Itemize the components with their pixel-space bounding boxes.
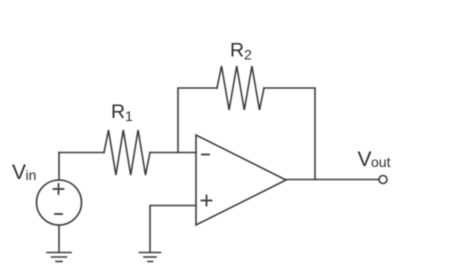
wire R2 to right corner and down to output — [264, 88, 315, 180]
label Vin — [12, 161, 36, 184]
svg-text:V: V — [358, 148, 372, 171]
op-amp minus sign — [202, 154, 209, 156]
wire source top to node A — [58, 153, 60, 181]
voltage source plus sign — [54, 184, 64, 194]
svg-text:in: in — [26, 167, 37, 183]
resistor R2 — [217, 66, 264, 110]
resistor R1 — [104, 130, 150, 175]
svg-text:V: V — [12, 161, 26, 184]
voltage source V1 — [37, 180, 82, 225]
op-amp U1 — [196, 135, 286, 225]
wire R1 to inverting input — [150, 152, 196, 154]
svg-text:2: 2 — [244, 47, 252, 63]
voltage source minus sign — [55, 213, 62, 215]
label R1 — [111, 101, 133, 124]
ground under noninverting input — [140, 253, 161, 262]
label Vout — [358, 148, 391, 171]
ground under voltage source — [47, 253, 71, 262]
wire junction B up to R2 — [178, 88, 217, 153]
svg-text:out: out — [371, 154, 391, 170]
wire node A to R1 — [59, 152, 104, 154]
op-amp plus sign — [202, 196, 212, 206]
output terminal circle — [379, 176, 387, 184]
wire source bottom to ground — [58, 225, 60, 252]
svg-text:1: 1 — [125, 108, 133, 124]
svg-text:R: R — [111, 101, 125, 123]
label R2 — [230, 40, 252, 63]
wire noninverting input — [150, 206, 196, 253]
svg-text:R: R — [230, 40, 244, 62]
wire output — [286, 179, 379, 181]
